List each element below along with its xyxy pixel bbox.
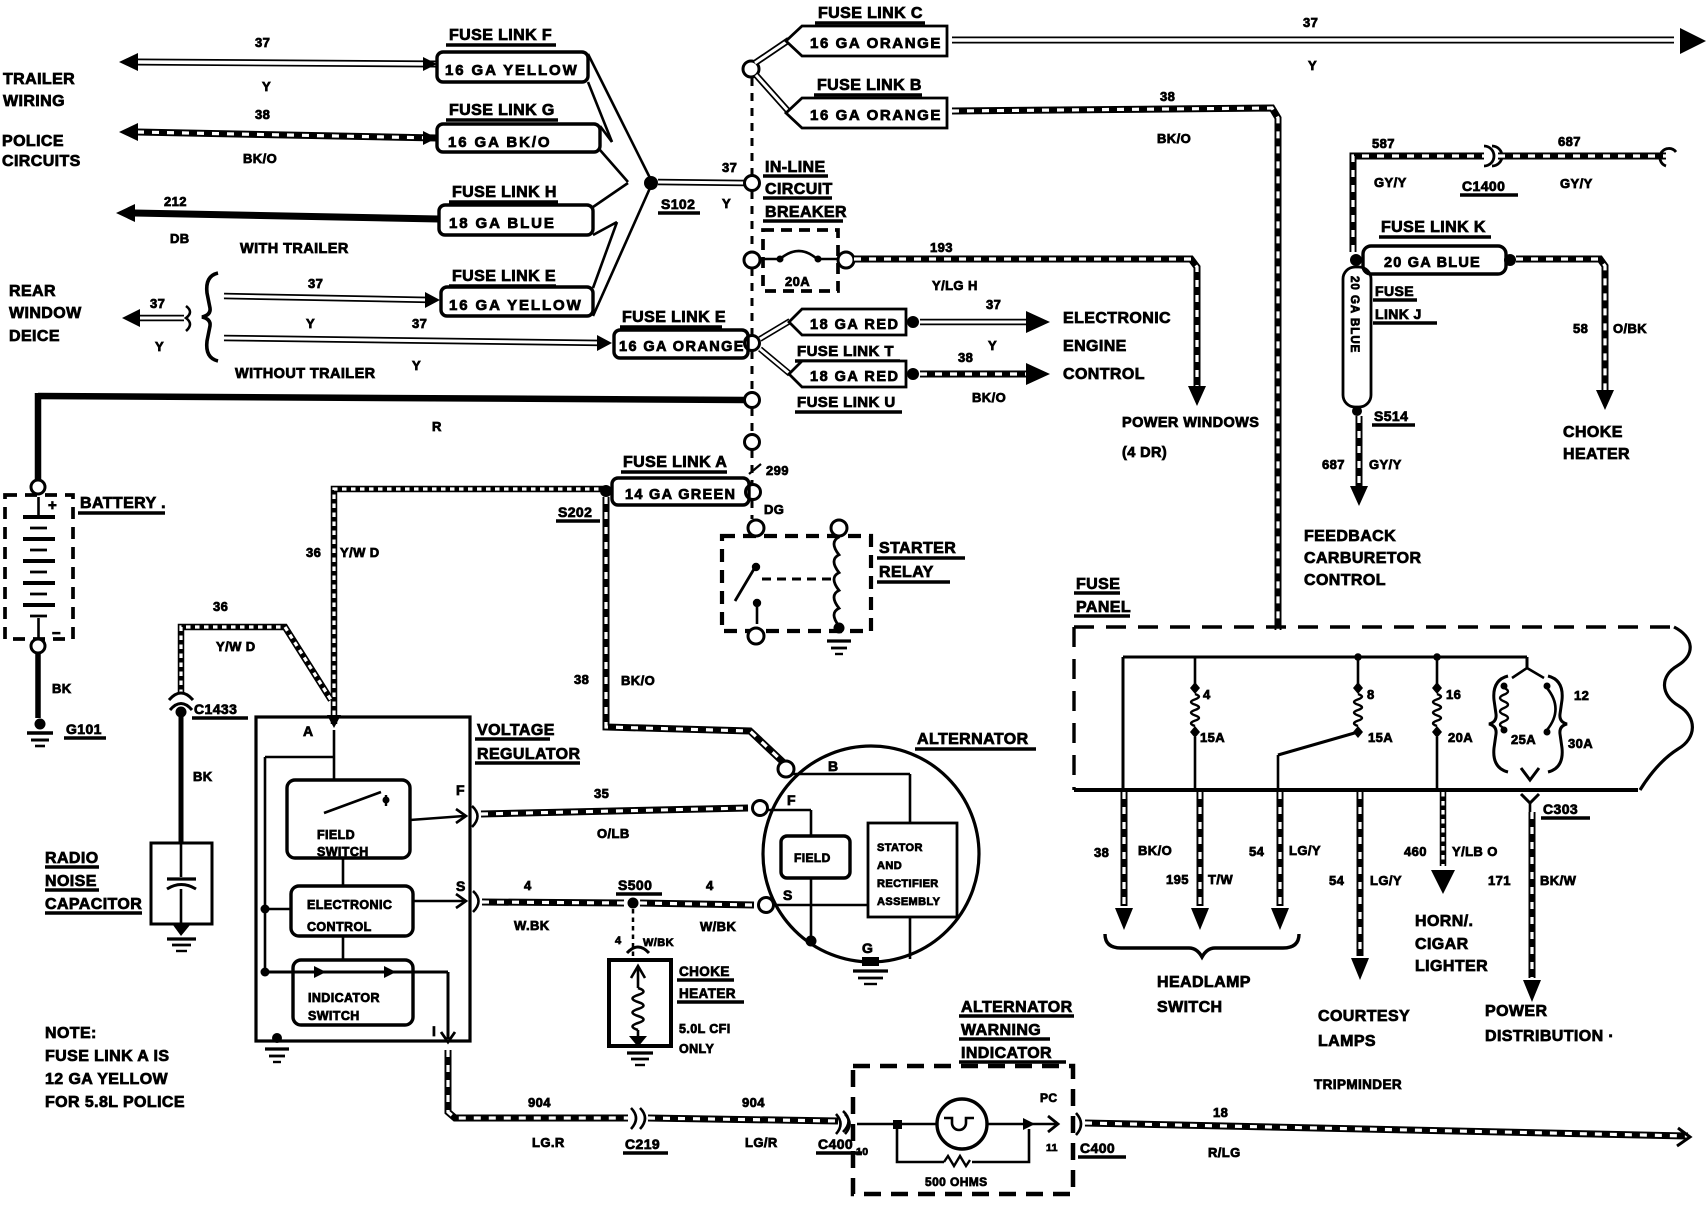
svg-text:38: 38: [958, 350, 973, 365]
svg-text:11: 11: [1046, 1142, 1058, 1154]
svg-text:Y: Y: [722, 196, 731, 211]
svg-text:S: S: [783, 887, 793, 903]
svg-text:37: 37: [308, 276, 323, 291]
svg-text:BK: BK: [52, 681, 72, 696]
svg-text:STARTER: STARTER: [879, 540, 956, 557]
svg-text:18 GA RED: 18 GA RED: [810, 369, 900, 385]
svg-text:Y: Y: [412, 358, 421, 373]
svg-text:18: 18: [1213, 1105, 1228, 1120]
svg-text:INDICATOR: INDICATOR: [961, 1045, 1052, 1062]
svg-text:ASSEMBLY: ASSEMBLY: [877, 896, 941, 908]
svg-text:O/BK: O/BK: [1613, 321, 1647, 336]
svg-text:Y: Y: [155, 339, 164, 354]
svg-text:54: 54: [1249, 844, 1265, 859]
svg-text:NOISE: NOISE: [45, 873, 97, 890]
svg-text:C400: C400: [818, 1136, 853, 1152]
svg-text:36: 36: [306, 545, 321, 560]
svg-text:18 GA BLUE: 18 GA BLUE: [449, 215, 556, 232]
svg-text:CONTROL: CONTROL: [1063, 366, 1145, 383]
svg-text:CIRCUIT: CIRCUIT: [765, 181, 833, 198]
svg-text:C1400: C1400: [1462, 178, 1505, 194]
svg-text:SWITCH: SWITCH: [308, 1009, 360, 1023]
svg-text:14 GA GREEN: 14 GA GREEN: [625, 487, 736, 503]
svg-text:POLICE: POLICE: [2, 133, 64, 150]
svg-text:904: 904: [528, 1095, 551, 1110]
svg-text:171: 171: [1488, 873, 1511, 888]
svg-text:HEADLAMP: HEADLAMP: [1157, 974, 1251, 991]
svg-text:CHOKE: CHOKE: [679, 964, 730, 979]
svg-text:37: 37: [150, 296, 165, 311]
svg-text:FUSE LINK T: FUSE LINK T: [797, 343, 894, 360]
svg-text:FUSE LINK H: FUSE LINK H: [452, 184, 557, 201]
svg-text:16 GA YELLOW: 16 GA YELLOW: [449, 297, 583, 314]
svg-text:POWER WINDOWS: POWER WINDOWS: [1122, 415, 1259, 431]
svg-text:16 GA ORANGE: 16 GA ORANGE: [810, 107, 942, 124]
svg-text:PC: PC: [1040, 1091, 1057, 1105]
svg-text:S500: S500: [618, 877, 652, 893]
svg-text:193: 193: [930, 240, 953, 255]
svg-text:15A: 15A: [1200, 730, 1225, 745]
svg-text:38: 38: [255, 107, 270, 122]
svg-text:Y/LG H: Y/LG H: [932, 278, 978, 293]
svg-text:16: 16: [1446, 687, 1461, 702]
svg-text:FUSE LINK A: FUSE LINK A: [623, 454, 727, 471]
svg-text:460: 460: [1404, 844, 1427, 859]
svg-text:299: 299: [766, 463, 789, 478]
svg-text:58: 58: [1573, 321, 1588, 336]
svg-text:25A: 25A: [1511, 732, 1536, 747]
svg-text:ALTERNATOR: ALTERNATOR: [961, 999, 1073, 1016]
svg-text:NOTE:: NOTE:: [45, 1025, 97, 1042]
svg-text:CARBURETOR: CARBURETOR: [1304, 550, 1422, 567]
svg-text:C219: C219: [625, 1136, 660, 1152]
svg-text:S102: S102: [661, 196, 695, 212]
svg-text:FUSE LINK B: FUSE LINK B: [817, 77, 922, 94]
svg-text:WITH TRAILER: WITH TRAILER: [240, 241, 349, 257]
svg-text:R: R: [432, 419, 442, 434]
svg-text:38: 38: [1160, 89, 1175, 104]
svg-text:16 GA BK/O: 16 GA BK/O: [448, 134, 551, 151]
svg-text:A: A: [303, 723, 314, 739]
svg-text:GY/Y: GY/Y: [1560, 176, 1593, 191]
svg-text:195: 195: [1166, 872, 1189, 887]
svg-text:904: 904: [742, 1095, 765, 1110]
svg-text:POWER: POWER: [1485, 1003, 1547, 1020]
svg-text:4: 4: [1203, 687, 1211, 702]
svg-text:ENGINE: ENGINE: [1063, 338, 1127, 355]
svg-text:C400: C400: [1080, 1140, 1115, 1156]
svg-text:4: 4: [615, 935, 622, 947]
svg-text:FUSE LINK C: FUSE LINK C: [818, 5, 923, 22]
svg-text:12: 12: [1574, 688, 1589, 703]
svg-text:18 GA RED: 18 GA RED: [810, 317, 900, 333]
svg-text:RELAY: RELAY: [879, 564, 934, 581]
svg-text:WINDOW: WINDOW: [9, 305, 82, 322]
svg-text:Y: Y: [262, 79, 271, 94]
svg-text:Y/W D: Y/W D: [216, 639, 256, 654]
svg-text:LINK J: LINK J: [1375, 306, 1422, 322]
svg-text:BATTERY .: BATTERY .: [80, 495, 166, 512]
svg-text:GY/Y: GY/Y: [1369, 457, 1402, 472]
svg-text:5.0L CFI: 5.0L CFI: [679, 1022, 731, 1036]
svg-text:S514: S514: [1374, 408, 1408, 424]
svg-text:PANEL: PANEL: [1076, 599, 1131, 616]
svg-text:COURTESY: COURTESY: [1318, 1008, 1410, 1025]
svg-text:Y: Y: [306, 316, 315, 331]
svg-text:BK/O: BK/O: [972, 390, 1006, 405]
svg-text:Y/LB O: Y/LB O: [1452, 844, 1498, 859]
svg-text:DEICE: DEICE: [9, 328, 60, 345]
svg-text:16 GA YELLOW: 16 GA YELLOW: [445, 62, 579, 79]
svg-text:−: −: [52, 625, 61, 642]
svg-text:REGULATOR: REGULATOR: [477, 746, 580, 763]
svg-text:(4 DR): (4 DR): [1122, 445, 1167, 461]
svg-text:Y: Y: [988, 338, 997, 353]
svg-text:10: 10: [856, 1146, 868, 1158]
svg-text:+: +: [48, 497, 57, 514]
svg-text:C303: C303: [1543, 801, 1578, 817]
svg-text:LG/Y: LG/Y: [1370, 873, 1402, 888]
svg-text:8: 8: [1367, 687, 1375, 702]
svg-text:DB: DB: [170, 231, 190, 246]
svg-text:INDICATOR: INDICATOR: [308, 991, 380, 1005]
svg-text:S: S: [456, 878, 466, 894]
svg-text:WIRING: WIRING: [3, 93, 65, 110]
svg-text:BK/O: BK/O: [243, 151, 277, 166]
svg-text:REAR: REAR: [9, 283, 56, 300]
svg-text:30A: 30A: [1568, 736, 1593, 751]
svg-text:F: F: [456, 782, 465, 798]
svg-text:LIGHTER: LIGHTER: [1415, 958, 1488, 975]
svg-text:SWITCH: SWITCH: [1157, 999, 1223, 1016]
svg-text:500 OHMS: 500 OHMS: [925, 1175, 988, 1189]
svg-text:35: 35: [594, 786, 609, 801]
svg-text:CHOKE: CHOKE: [1563, 424, 1623, 441]
svg-text:AND: AND: [877, 860, 902, 872]
svg-text:I: I: [432, 1023, 436, 1039]
svg-text:F: F: [787, 792, 796, 808]
svg-text:20 GA BLUE: 20 GA BLUE: [1348, 276, 1360, 353]
svg-text:16 GA ORANGE: 16 GA ORANGE: [619, 339, 745, 355]
svg-text:C1433: C1433: [194, 701, 237, 717]
svg-text:212: 212: [164, 194, 187, 209]
svg-text:HORN/.: HORN/.: [1415, 913, 1473, 930]
svg-text:ELECTRONIC: ELECTRONIC: [1063, 310, 1171, 327]
svg-text:FEEDBACK: FEEDBACK: [1304, 528, 1396, 545]
svg-text:BK/W: BK/W: [1540, 873, 1577, 888]
svg-text:DG: DG: [764, 502, 784, 517]
svg-text:WARNING: WARNING: [961, 1022, 1041, 1039]
svg-text:BK/O: BK/O: [1138, 843, 1172, 858]
svg-text:FIELD: FIELD: [794, 851, 831, 865]
svg-text:W/BK: W/BK: [643, 937, 674, 949]
svg-text:R/LG: R/LG: [1208, 1145, 1241, 1160]
svg-text:LG.R: LG.R: [532, 1135, 565, 1150]
svg-text:37: 37: [722, 160, 737, 175]
svg-text:FUSE LINK E: FUSE LINK E: [622, 309, 726, 326]
svg-text:BK: BK: [193, 769, 213, 784]
svg-text:CONTROL: CONTROL: [307, 920, 372, 934]
svg-text:Y: Y: [1308, 58, 1317, 73]
svg-text:W.BK: W.BK: [514, 918, 550, 933]
svg-text:FOR 5.8L POLICE: FOR 5.8L POLICE: [45, 1094, 185, 1111]
svg-text:16 GA ORANGE: 16 GA ORANGE: [810, 35, 942, 52]
svg-text:FUSE LINK F: FUSE LINK F: [449, 27, 552, 44]
svg-text:CONTROL: CONTROL: [1304, 572, 1386, 589]
svg-text:IN-LINE: IN-LINE: [765, 159, 826, 176]
svg-text:LAMPS: LAMPS: [1318, 1033, 1376, 1050]
svg-text:20 GA BLUE: 20 GA BLUE: [1384, 255, 1481, 271]
svg-text:STATOR: STATOR: [877, 842, 923, 854]
svg-text:37: 37: [1303, 15, 1318, 30]
svg-text:T/W: T/W: [1208, 872, 1233, 887]
svg-text:WITHOUT TRAILER: WITHOUT TRAILER: [235, 366, 376, 382]
svg-text:ELECTRONIC: ELECTRONIC: [307, 898, 392, 912]
svg-text:HEATER: HEATER: [1563, 446, 1630, 463]
svg-text:FUSE LINK U: FUSE LINK U: [797, 394, 896, 411]
svg-text:GY/Y: GY/Y: [1374, 175, 1407, 190]
svg-text:687: 687: [1558, 134, 1581, 149]
svg-text:O/LB: O/LB: [597, 826, 630, 841]
svg-text:BK/O: BK/O: [1157, 131, 1191, 146]
svg-text:587: 587: [1372, 136, 1395, 151]
svg-text:FIELD: FIELD: [317, 828, 355, 842]
svg-text:FUSE LINK K: FUSE LINK K: [1381, 219, 1486, 236]
svg-text:VOLTAGE: VOLTAGE: [477, 722, 555, 739]
svg-text:687: 687: [1322, 457, 1345, 472]
svg-text:S202: S202: [558, 504, 592, 520]
svg-text:TRAILER: TRAILER: [3, 71, 75, 88]
svg-text:G: G: [862, 940, 873, 956]
svg-text:38: 38: [1094, 845, 1109, 860]
svg-text:FUSE LINK A IS: FUSE LINK A IS: [45, 1048, 169, 1065]
svg-text:12 GA YELLOW: 12 GA YELLOW: [45, 1071, 169, 1088]
svg-text:B: B: [828, 758, 839, 774]
svg-text:G101: G101: [66, 721, 102, 737]
svg-text:RECTIFIER: RECTIFIER: [877, 878, 939, 890]
svg-text:15A: 15A: [1368, 730, 1393, 745]
svg-text:CAPACITOR: CAPACITOR: [45, 896, 142, 913]
svg-text:37: 37: [986, 297, 1001, 312]
svg-text:FUSE: FUSE: [1076, 576, 1120, 593]
svg-text:ONLY: ONLY: [679, 1042, 714, 1056]
svg-text:ALTERNATOR: ALTERNATOR: [917, 731, 1029, 748]
svg-text:54: 54: [1329, 873, 1345, 888]
svg-text:20A: 20A: [1448, 730, 1473, 745]
svg-text:CIRCUITS: CIRCUITS: [2, 153, 81, 170]
svg-text:FUSE LINK E: FUSE LINK E: [452, 268, 556, 285]
svg-text:W/BK: W/BK: [700, 919, 736, 934]
svg-text:4: 4: [706, 878, 714, 893]
svg-text:20A: 20A: [785, 274, 810, 289]
svg-text:SWITCH: SWITCH: [317, 845, 369, 859]
svg-text:DISTRIBUTION ·: DISTRIBUTION ·: [1485, 1028, 1614, 1045]
svg-text:FUSE LINK G: FUSE LINK G: [449, 102, 555, 119]
svg-text:Y/W D: Y/W D: [340, 545, 380, 560]
svg-text:TRIPMINDER: TRIPMINDER: [1314, 1077, 1402, 1092]
svg-text:36: 36: [213, 599, 228, 614]
svg-text:RADIO: RADIO: [45, 850, 99, 867]
svg-text:HEATER: HEATER: [679, 986, 736, 1001]
svg-text:37: 37: [255, 35, 270, 50]
svg-text:38: 38: [574, 672, 589, 687]
svg-text:FUSE: FUSE: [1375, 283, 1414, 299]
svg-text:LG/Y: LG/Y: [1289, 843, 1321, 858]
svg-text:BREAKER: BREAKER: [765, 204, 847, 221]
svg-text:BK/O: BK/O: [621, 673, 655, 688]
svg-text:LG/R: LG/R: [745, 1135, 778, 1150]
svg-text:4: 4: [524, 878, 532, 893]
svg-text:37: 37: [412, 316, 427, 331]
svg-text:CIGAR: CIGAR: [1415, 936, 1469, 953]
